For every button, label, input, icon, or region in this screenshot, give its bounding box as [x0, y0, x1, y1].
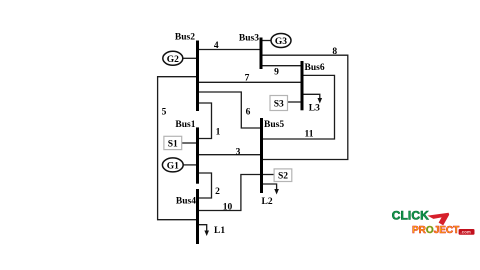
svg-text:S1: S1: [168, 140, 178, 150]
svg-text:7: 7: [245, 73, 250, 83]
svg-text:8: 8: [332, 47, 337, 57]
svg-text:Bus6: Bus6: [305, 63, 325, 73]
wire S3 connector: [288, 101, 302, 103]
svg-text:L1: L1: [214, 226, 225, 236]
load L1 arrowhead: [204, 231, 209, 237]
svg-text:G1: G1: [167, 161, 179, 171]
wire G1 connector: [183, 164, 197, 166]
svg-text:S3: S3: [274, 100, 284, 110]
svg-text:3: 3: [236, 147, 241, 157]
wire G3 connector: [262, 40, 271, 42]
svg-text:G2: G2: [167, 55, 179, 65]
svg-text:4: 4: [214, 41, 219, 51]
wire load L3 drop: [303, 94, 320, 99]
svg-text:Bus3: Bus3: [239, 34, 259, 44]
svg-text:1: 1: [216, 127, 221, 137]
svg-text:Bus2: Bus2: [175, 33, 195, 43]
wire line 4 (Bus2-Bus3): [198, 49, 260, 51]
wire load L1 drop: [198, 225, 207, 232]
load L3 arrowhead: [318, 98, 323, 104]
bus Bus4 bar: [196, 189, 199, 244]
wire S1 connector: [182, 142, 197, 144]
switch S1: [164, 136, 182, 149]
switch S2: [274, 169, 292, 182]
generator G3: [271, 34, 291, 48]
svg-text:11: 11: [305, 130, 314, 140]
bus Bus2 bar: [196, 41, 199, 112]
wire line 11 (Bus6-Bus5): [262, 75, 335, 139]
svg-text:Bus1: Bus1: [175, 120, 195, 130]
svg-text:L2: L2: [262, 197, 273, 207]
svg-text:.com: .com: [460, 230, 471, 235]
bus Bus6 bar: [301, 61, 304, 110]
wire line 7 (Bus2-Bus6): [198, 81, 301, 83]
generator G2: [163, 51, 183, 65]
bus Bus1 bar: [196, 127, 199, 183]
wire load L2 drop: [262, 184, 277, 190]
wire G2 connector: [183, 57, 197, 59]
svg-text:10: 10: [223, 203, 233, 213]
switch S3: [270, 96, 288, 111]
wire line 8 (Bus3-Bus5): [261, 55, 348, 159]
svg-text:2: 2: [215, 187, 220, 197]
svg-text:9: 9: [274, 68, 279, 78]
svg-text:Bus4: Bus4: [176, 197, 196, 207]
generator G1: [162, 158, 183, 172]
wire line 3 (Bus1-Bus5): [198, 154, 261, 156]
svg-text:5: 5: [162, 107, 167, 117]
logo arrow (italic 7 flash): [428, 213, 450, 226]
svg-text:L3: L3: [309, 104, 320, 114]
svg-text:PROJECT: PROJECT: [412, 225, 459, 236]
wire line 10 (Bus4-Bus5): [198, 175, 261, 211]
load L2 arrowhead: [274, 189, 279, 195]
logo .com tag: [459, 229, 475, 235]
wire line 2 (Bus1-Bus4): [198, 173, 212, 198]
svg-text:G3: G3: [275, 37, 287, 47]
svg-text:6: 6: [246, 107, 251, 117]
bus Bus5 bar: [260, 118, 263, 193]
wire line 6 (Bus2-Bus5): [198, 92, 261, 128]
bus Bus3 bar: [260, 38, 263, 70]
logo CLICK PROJECT watermark: [392, 209, 475, 236]
wire S2 connector: [262, 174, 274, 176]
wire line 1 (Bus2-Bus1): [198, 103, 212, 139]
wire line 9 (Bus3-Bus6): [261, 65, 301, 67]
wire line 5 (Bus2-Bus4): [158, 77, 197, 220]
svg-text:CLICK: CLICK: [392, 209, 429, 223]
svg-text:Bus5: Bus5: [264, 120, 284, 130]
svg-text:S2: S2: [278, 172, 288, 182]
